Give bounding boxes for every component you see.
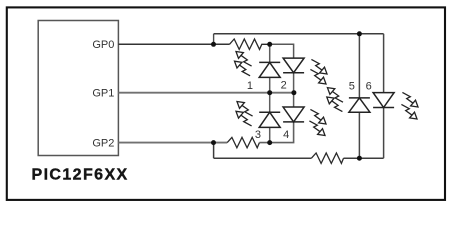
wire bottom rail left segment <box>214 157 312 159</box>
junction GP0 / top rail <box>211 42 216 47</box>
resistor R3 on bottom rail <box>311 153 343 163</box>
wire junction A up to top rail <box>213 34 215 45</box>
LED D1 (triangle up, bar top) <box>259 62 280 77</box>
svg-text:2: 2 <box>281 79 287 91</box>
svg-text:GP2: GP2 <box>92 137 114 149</box>
wire node B to LED2 top <box>270 44 294 58</box>
wire LED4 top lead <box>293 93 295 107</box>
wire LED2 bottom lead <box>293 73 295 93</box>
wire GP2 node D to LED4 bottom <box>259 122 293 143</box>
LED D3 emission arrows <box>236 102 253 126</box>
LED D5 (triangle up, bar top) <box>349 98 370 112</box>
LED D3 (triangle up, bar top) <box>259 112 280 127</box>
wire LED6 column bottom <box>383 108 385 159</box>
LED D4 emission arrows <box>309 109 326 135</box>
LED D2 emission arrows <box>310 59 327 84</box>
junction GP1 / LED2 / LED4 <box>291 90 296 95</box>
wire LED1 bottom lead <box>269 77 271 92</box>
wire LED6 column top <box>383 34 385 93</box>
junction top rail / LED5 <box>357 31 362 36</box>
microcontroller U1 PIC12F6XX body <box>38 21 118 156</box>
wire LED5 column bottom <box>358 112 360 158</box>
wire LED3 top lead <box>269 93 271 113</box>
wire junction C down to bottom rail <box>213 143 215 159</box>
wire GP1 from U1 to LED2 column <box>118 92 293 94</box>
wire LED3 bottom lead <box>269 127 271 142</box>
wire GP0 from U1 to junction A <box>118 43 229 45</box>
junction GP2 / LED3 bottom <box>267 140 272 145</box>
svg-text:PIC12F6XX: PIC12F6XX <box>32 167 129 184</box>
junction bottom rail / LED5 <box>357 156 362 161</box>
LED D1 emission arrows <box>235 52 252 76</box>
resistor R1 on GP0 line <box>230 39 270 49</box>
junction R1 / LED1 / LED2 branch <box>267 42 272 47</box>
svg-text:3: 3 <box>255 129 261 141</box>
svg-text:GP1: GP1 <box>92 88 114 100</box>
wire bottom rail right segment <box>344 157 384 159</box>
junction GP1 / LED1 / LED3 <box>267 90 272 95</box>
LED D5 emission arrows <box>327 88 343 112</box>
resistor R2 on GP2 line <box>227 137 259 147</box>
wire GP2 from U1 to junction C <box>118 142 227 144</box>
svg-text:4: 4 <box>283 129 289 141</box>
wire LED1 top lead <box>269 44 271 62</box>
wire top rail <box>214 33 384 35</box>
svg-text:GP0: GP0 <box>92 39 114 51</box>
LED D6 (triangle down, bar bottom) <box>373 93 394 108</box>
LED D4 (triangle down, bar bottom) <box>283 107 304 122</box>
wire LED5 column top <box>358 34 360 98</box>
LED D2 (triangle down, bar bottom) <box>283 58 304 73</box>
LED D6 emission arrows <box>401 92 418 119</box>
svg-text:6: 6 <box>366 80 372 92</box>
svg-text:5: 5 <box>349 80 355 92</box>
svg-text:1: 1 <box>247 80 253 92</box>
junction GP2 / bottom rail <box>211 140 216 145</box>
